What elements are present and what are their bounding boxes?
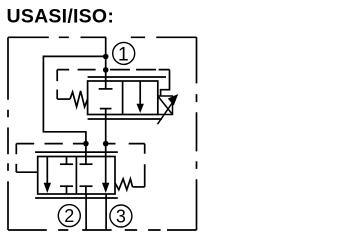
- lower valve envelope (2 position boxes): [38, 157, 115, 195]
- wire: upper valve bottom port down to lower valve: [105, 115, 107, 157]
- wire: port 2 line: [85, 194, 87, 230]
- lower valve right box flow arrow: [105, 157, 107, 185]
- lower valve left box blocked T bottom: [66, 186, 68, 194]
- upper valve top rail: [88, 76, 166, 78]
- boundary right: [196, 37, 198, 230]
- upper valve envelope (2 position boxes): [88, 81, 158, 115]
- lower valve top rail: [35, 151, 118, 153]
- upper valve flow arrow (open position): [139, 81, 141, 106]
- svg-text:2: 2: [64, 206, 74, 226]
- pilot connector to lower valve left: [16, 171, 37, 173]
- svg-text:USASI/ISO:: USASI/ISO:: [7, 6, 115, 28]
- lower pilot line (dashed): [16, 143, 144, 145]
- node: junction dot at port 1 branch: [103, 54, 109, 60]
- pilot branch (dashed) down to upper valve spring end: [56, 70, 58, 100]
- wire: port 1 inlet from boundary to upper valve: [105, 37, 107, 81]
- pilot step down to adjustable orifice: [161, 70, 170, 96]
- lower valve left box blocked T top: [66, 157, 68, 165]
- pilot branch (dashed) down-right to lower valve spring end: [144, 144, 146, 187]
- port 1 label circle: [113, 42, 135, 64]
- spring connector lower right: [133, 186, 145, 188]
- wire: from port1 node around left to lower valve top: [43, 56, 105, 156]
- node: junction dot lower pilot left: [83, 141, 89, 147]
- node: junction dot lower pilot right: [103, 141, 109, 147]
- spring (lower valve, right): [115, 179, 133, 190]
- lower valve position divider: [75, 157, 77, 195]
- pilot branch (dashed) down-left to lower valve pilot end: [15, 144, 17, 173]
- lower valve left box flow arrow: [46, 157, 48, 185]
- upper valve position divider: [122, 81, 124, 115]
- port 2 label circle: [58, 205, 80, 227]
- svg-text:3: 3: [116, 206, 126, 226]
- boundary top: [8, 36, 197, 38]
- upper valve blocked port T (top): [105, 81, 107, 89]
- boundary bottom: [8, 229, 197, 231]
- svg-text:1: 1: [118, 44, 129, 66]
- orifice diagonal: [158, 96, 173, 115]
- upper valve bottom rail: [88, 118, 162, 120]
- wire: port 3 line: [105, 194, 107, 230]
- upper valve blocked port T (bottom): [105, 109, 107, 115]
- cartridge boundary (chain-dashed envelope): [8, 37, 197, 230]
- spring connector upper left: [57, 98, 70, 100]
- lower valve right box blocked T top: [85, 157, 87, 165]
- adjustment arrow diagonal: [158, 100, 175, 125]
- node: junction dot at pilot branch: [103, 67, 109, 73]
- port 3 label circle: [110, 205, 132, 227]
- spring (upper valve, left): [70, 91, 88, 107]
- adjustable orifice box with X: [158, 96, 173, 115]
- pilot line (dashed) from node 2 to right: [57, 69, 169, 71]
- lower valve right box blocked T bottom: [85, 186, 87, 194]
- boundary left: [7, 37, 9, 230]
- lower valve bottom rail: [35, 197, 118, 199]
